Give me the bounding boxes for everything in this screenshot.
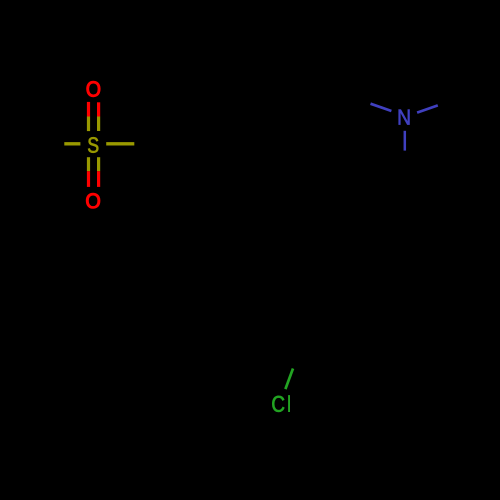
double bond S=O bottom, right line, O half (red) [97, 171, 100, 187]
double bond S=O bottom, right line, S half (olive) [97, 157, 100, 171]
atom label Cl: letter C (chlorine, green) [272, 396, 284, 412]
double bond S=O top, right line, O half (red) [97, 102, 100, 116]
bond N-C ring upper-left (nitrogen half, blue) [371, 104, 392, 111]
atom label O (top oxygen, red) [87, 81, 100, 96]
double bond S=O top, left line, O half (red) [87, 102, 90, 117]
bond CH3-S (sulfur half, olive) [64, 142, 80, 145]
double bond S=O top, right line, S half (olive) [97, 117, 100, 132]
bond S-aryl (sulfur half, olive) [106, 142, 134, 145]
atom label Cl: letter l drawn as bar (chlorine, green) [288, 395, 290, 412]
double bond S=O bottom, left line, O half (red) [87, 171, 90, 187]
bond N-CH3 upper-right (nitrogen half, blue) [417, 105, 438, 112]
bond Cl-aryl (chlorine half, green) [285, 369, 293, 390]
atom label O (bottom oxygen, red) [86, 193, 100, 208]
double bond S=O top, left line, S half (olive) [87, 117, 90, 132]
atom label S (sulfur, olive) [88, 137, 98, 153]
atom label N (nitrogen, blue) [399, 110, 410, 125]
double bond S=O bottom, left line, S half (olive) [87, 157, 90, 171]
bond N-C ring down (nitrogen half, blue) [404, 131, 407, 151]
